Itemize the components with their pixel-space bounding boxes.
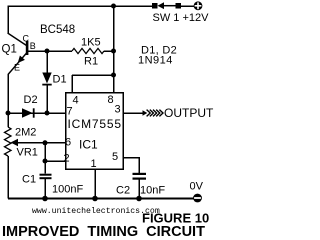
svg-text:5: 5: [112, 151, 118, 163]
svg-text:100nF: 100nF: [52, 184, 83, 196]
wire pin4-pin8 tie: [72, 74, 114, 76]
VR1 wiper arrow: [11, 139, 46, 147]
svg-text:IMPROVED TIMING CIRCUIT: IMPROVED TIMING CIRCUIT: [2, 224, 205, 239]
wire left rail lower: [7, 156, 9, 199]
transistor Q1 BC548: [8, 41, 28, 75]
wire left vertical from top rail: [7, 6, 9, 34]
svg-text:BC548: BC548: [40, 24, 75, 36]
svg-text:ICM7555: ICM7555: [68, 117, 122, 131]
svg-text:SW 1 +12V: SW 1 +12V: [153, 12, 210, 24]
svg-text:2: 2: [64, 153, 70, 165]
wire pin 4 stub: [71, 75, 73, 93]
capacitor C1: [40, 174, 52, 199]
svg-text:D2: D2: [24, 94, 38, 106]
diode D1: [42, 51, 51, 113]
svg-text:Q1: Q1: [2, 44, 17, 56]
svg-text:B: B: [30, 41, 36, 51]
node wiper pin6 junction: [43, 140, 48, 145]
node pins 4-8 tie junction: [111, 73, 116, 78]
svg-text:C: C: [23, 34, 30, 44]
resistor R1: [72, 48, 104, 53]
node C1 rail junction: [42, 196, 48, 202]
wire base row: [28, 50, 72, 52]
wire junction column: [44, 143, 46, 161]
svg-text:0V: 0V: [190, 181, 204, 193]
wire R1 right lead: [104, 50, 114, 52]
svg-text:D1: D1: [53, 74, 67, 86]
svg-text:1K5: 1K5: [81, 37, 101, 49]
node R1 right junction: [111, 49, 116, 54]
svg-text:OUTPUT: OUTPUT: [164, 106, 214, 120]
svg-text:1: 1: [91, 158, 97, 170]
wire pin 5 lead: [123, 158, 139, 173]
IC U1 ICM7555 box: [66, 93, 124, 170]
switch SW1: [152, 2, 181, 9]
svg-text:8: 8: [108, 94, 114, 106]
wire C1 column upper: [44, 161, 46, 174]
svg-text:3: 3: [115, 104, 121, 116]
wire pin 2 stub: [45, 160, 66, 162]
wire +12V vertical column: [113, 6, 115, 75]
wire left rail upper: [7, 74, 9, 127]
svg-text:4: 4: [73, 95, 79, 107]
terminal +12V: [194, 1, 203, 10]
node pin1 rail junction: [92, 196, 98, 202]
svg-text:IC1: IC1: [79, 138, 98, 152]
diode D2: [22, 108, 35, 117]
svg-text:VR1: VR1: [17, 147, 38, 159]
svg-text:6: 6: [65, 137, 71, 149]
terminal 0V: [193, 194, 202, 203]
svg-text:R1: R1: [84, 56, 98, 68]
wire top rail right segment to +12V: [180, 5, 194, 7]
wire pin 3 output: [123, 112, 143, 114]
svg-text:7: 7: [67, 106, 73, 118]
node C2 rail junction: [136, 196, 142, 202]
wire pin 6 stub: [45, 142, 66, 144]
node top rail junction: [111, 4, 116, 9]
svg-text:1N914: 1N914: [138, 55, 173, 67]
capacitor C2: [133, 173, 147, 199]
node left rail D2 junction: [6, 111, 11, 116]
svg-text:www.unitechelectronics.com: www.unitechelectronics.com: [32, 206, 160, 216]
node D1 D2 pin7 junction: [45, 111, 50, 116]
output arrow chevrons: [143, 110, 164, 117]
node base junction: [45, 49, 50, 54]
wire bottom rail: [8, 198, 194, 200]
wire pin 1 down: [94, 169, 96, 199]
svg-text:E: E: [14, 63, 20, 73]
wire pin 7 stub: [47, 112, 66, 114]
svg-text:C1: C1: [22, 174, 36, 186]
wire D2 row: [8, 112, 47, 114]
transistor Q1 collector wire: [8, 33, 27, 46]
node pin2 junction: [43, 159, 48, 164]
wire top rail left segment: [8, 5, 153, 7]
svg-text:10nF: 10nF: [140, 185, 165, 197]
svg-text:2M2: 2M2: [15, 127, 36, 139]
potentiometer VR1: [5, 127, 12, 156]
wire pin 8 stub: [113, 75, 115, 93]
svg-text:C2: C2: [116, 185, 130, 197]
